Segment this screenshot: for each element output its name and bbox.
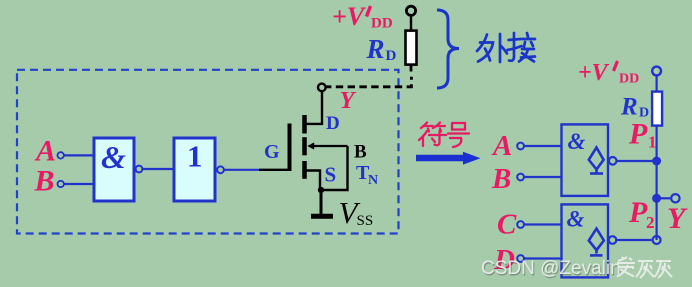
gate G1 output bubble: [609, 157, 617, 165]
watermark 爱灰灰: [617, 257, 672, 278]
resistor RD bottom lead: [410, 65, 413, 72]
svg-text:A: A: [34, 135, 56, 168]
svg-text:+V: +V: [578, 60, 610, 86]
label 符号 (symbol): [419, 123, 469, 148]
svg-text:R: R: [366, 34, 385, 64]
input terminal D (right): [517, 255, 524, 262]
svg-text:P: P: [628, 118, 648, 151]
svg-text:N: N: [368, 173, 378, 188]
watermark CSDN @Zevalin: [481, 258, 622, 281]
drain lead of TN: [306, 92, 323, 124]
gate G1 label &: [568, 129, 586, 154]
wire B to gate G1: [524, 176, 562, 178]
bulk label B: [354, 142, 367, 163]
svg-text:B: B: [491, 163, 511, 195]
input terminal C (right): [517, 221, 524, 228]
input label D (right): [493, 244, 515, 276]
source lead of TN: [306, 171, 321, 191]
label VSS: [339, 195, 374, 230]
svg-text:SS: SS: [357, 213, 374, 229]
wire U1 to inverter U2: [143, 168, 175, 170]
gate G2 label &: [567, 207, 585, 232]
svg-text:D: D: [326, 113, 340, 134]
svg-text:A: A: [491, 130, 512, 162]
open-drain NAND gate G1 box: [562, 124, 609, 195]
node P2 corner circle: [653, 236, 661, 244]
label P2: [628, 196, 655, 232]
supply terminal circle (left VDD): [406, 6, 415, 15]
svg-text:C: C: [497, 209, 517, 241]
ground bar VSS: [311, 214, 333, 219]
gate G2 open-drain diamond symbol: [589, 229, 604, 256]
svg-text:CSDN @Zevalin: CSDN @Zevalin: [481, 258, 621, 279]
inverter U2 output bubble: [217, 166, 224, 173]
svg-text:DD: DD: [371, 16, 393, 32]
AND gate U1 output bubble: [136, 166, 143, 173]
lead from right VDD terminal to resistor: [655, 75, 657, 92]
AND gate U1 box: [94, 138, 134, 201]
svg-text:B: B: [354, 142, 367, 163]
inverter U2 box: [174, 138, 215, 201]
input terminal A (right): [517, 143, 524, 150]
svg-text:P: P: [628, 196, 648, 229]
open-drain NAND gate G2 box: [562, 204, 609, 277]
gate label G: [264, 141, 280, 163]
svg-text:&: &: [568, 129, 586, 154]
junction dot source/body: [318, 187, 324, 193]
wire A to gate G1: [524, 145, 562, 147]
svg-text:DD: DD: [619, 72, 639, 87]
input terminal A (left): [58, 152, 64, 158]
svg-text:G: G: [264, 141, 280, 163]
wire C to gate G2: [524, 223, 562, 225]
gate G1 open-drain diamond symbol: [589, 148, 604, 174]
input label A (left): [34, 135, 56, 168]
svg-text:1: 1: [648, 133, 657, 152]
node P1 junction dot: [652, 157, 661, 166]
dashed enclosure box (internal circuit): [17, 70, 399, 234]
label RD (left): [366, 34, 397, 64]
svg-text:B: B: [34, 165, 55, 198]
dashed wire from Y to external resistor: [326, 77, 411, 87]
output terminal Y (left circuit): [318, 84, 326, 92]
svg-text:D: D: [386, 48, 397, 64]
AND gate U1 label &: [101, 139, 126, 175]
input terminal B (right): [517, 174, 524, 181]
input terminal B (left): [58, 181, 64, 187]
label P1: [628, 118, 657, 152]
supply terminal circle (right VDD): [652, 67, 661, 76]
svg-text:R: R: [620, 94, 638, 121]
svg-text:2: 2: [646, 213, 655, 232]
svg-text:Y: Y: [340, 87, 357, 114]
label +V'DD (left): [332, 2, 393, 32]
symbol arrow: [416, 152, 481, 165]
svg-text:&: &: [101, 139, 126, 175]
gate G2 output bubble: [609, 236, 617, 244]
wire G1 output to node P1: [617, 160, 657, 162]
svg-text:1: 1: [187, 139, 203, 174]
wire B to AND gate: [64, 183, 95, 185]
input label B (left): [34, 165, 55, 198]
transistor TN gate electrode: [288, 124, 292, 172]
label +V'DD (right): [578, 60, 639, 87]
wire to VSS ground: [320, 190, 323, 214]
svg-text:&: &: [567, 207, 585, 232]
input label C (right): [497, 209, 517, 241]
drain label D: [326, 113, 340, 134]
wire G2 output to node P2: [616, 239, 651, 241]
transistor TN channel segment (source side): [302, 161, 307, 179]
label 外接 (external): [477, 33, 535, 62]
output label Y (left circuit): [340, 87, 357, 114]
label Y (right): [667, 202, 688, 235]
external brace: [437, 10, 459, 88]
wire U2 output (blue part): [224, 169, 259, 171]
transistor label TN: [356, 162, 378, 188]
wire D to gate G2: [524, 257, 562, 259]
svg-text:Y: Y: [667, 202, 688, 235]
transistor TN channel segment (drain side): [302, 115, 307, 134]
wire A to AND gate: [64, 154, 95, 156]
resistor RD (right): [652, 92, 662, 126]
main pull-up wire down from resistor: [655, 126, 657, 241]
resistor RD (left, external): [406, 31, 417, 65]
source label S: [325, 163, 337, 187]
supply lead from terminal to resistor RD: [410, 15, 412, 31]
inverter U2 label 1: [187, 139, 203, 174]
body connection wire to source: [321, 146, 348, 190]
output terminal Y (right): [671, 194, 679, 202]
svg-text:+V: +V: [332, 2, 367, 31]
body arrow of TN: [307, 142, 347, 149]
node Y junction dot: [652, 194, 661, 203]
label RD (right): [620, 94, 649, 121]
input label B (right): [491, 163, 511, 195]
input label A (right): [491, 130, 512, 162]
transistor TN channel segment (body): [302, 137, 307, 155]
svg-text:S: S: [325, 163, 337, 187]
wire from node Y to output terminal: [657, 197, 672, 199]
wire to gate of TN (black part): [259, 169, 290, 171]
